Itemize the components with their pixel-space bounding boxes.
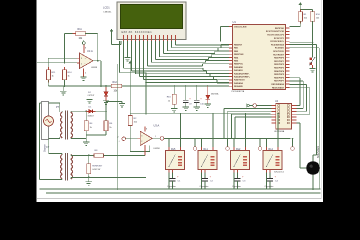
node — [312, 41, 314, 43]
wire — [168, 173, 170, 190]
wire — [62, 111, 86, 112]
svg-text:RD7/PSP7: RD7/PSP7 — [274, 81, 285, 83]
wire — [289, 48, 319, 189]
capacitor C4 — [267, 173, 277, 190]
resistor R12 — [111, 84, 122, 88]
MCU left pins — [229, 27, 233, 87]
resistor R2 — [128, 116, 132, 126]
label R2 — [134, 118, 138, 124]
svg-text:3: 3 — [141, 135, 142, 137]
power arrow — [110, 29, 121, 45]
label D1 — [88, 107, 94, 118]
label R1 — [304, 14, 308, 20]
MCU right pins — [286, 28, 290, 87]
wire — [289, 21, 300, 26]
wire — [169, 114, 181, 147]
pin — [129, 126, 131, 129]
IC U4 body — [276, 104, 292, 130]
pin — [299, 9, 301, 23]
left black bar — [0, 0, 37, 202]
ground — [309, 69, 315, 73]
svg-text:SOUNDER: SOUNDER — [317, 146, 320, 158]
wire — [49, 137, 60, 139]
label CT — [46, 146, 50, 149]
wire — [221, 27, 230, 42]
svg-text:RC2/CCP1: RC2/CCP1 — [274, 38, 285, 40]
resistor R11b — [47, 70, 51, 80]
wire bundle lower — [124, 41, 230, 83]
svg-text:RD2/PSP2: RD2/PSP2 — [274, 64, 285, 66]
wire — [40, 103, 49, 180]
svg-text:RC5/SDO: RC5/SDO — [275, 48, 285, 50]
svg-text:RB3/PGM: RB3/PGM — [234, 54, 244, 56]
node — [97, 60, 99, 62]
pin — [48, 67, 50, 83]
svg-text:RC3/SCK/SCL: RC3/SCK/SCL — [270, 41, 284, 43]
svg-text:RB0/INT: RB0/INT — [234, 44, 243, 46]
svg-text:8: 8 — [146, 129, 147, 131]
svg-text:R9/SHUNT: R9/SHUNT — [92, 165, 103, 167]
op-amp U3:A — [140, 131, 152, 145]
node — [145, 82, 147, 84]
MCU pin names — [234, 26, 285, 89]
label LCD1 — [103, 6, 112, 14]
ground — [86, 100, 92, 104]
node — [168, 113, 181, 140]
svg-text:E88 #8. 8333333E1: E88 #8. 8333333E1 — [122, 31, 153, 34]
wire — [296, 123, 306, 168]
MCU U1 body — [233, 25, 286, 90]
terminal — [291, 138, 295, 151]
wire — [106, 102, 122, 112]
relay RL1 — [198, 147, 217, 173]
ground — [83, 135, 89, 146]
svg-text:RC0/T1OSO/T1CKI: RC0/T1OSO/T1CKI — [266, 31, 285, 33]
svg-text:RD0/PSP0: RD0/PSP0 — [274, 58, 285, 60]
svg-text:1: 1 — [155, 136, 156, 138]
svg-text:LM358: LM358 — [154, 148, 161, 150]
svg-text:RD3/PSP3: RD3/PSP3 — [274, 67, 285, 69]
power pin — [145, 127, 147, 132]
capacitor C9 — [183, 85, 193, 110]
wire — [153, 136, 161, 138]
wire — [116, 64, 118, 189]
svg-text:RD4/PSP4: RD4/PSP4 — [274, 70, 285, 73]
wire — [266, 173, 268, 190]
wire — [120, 41, 147, 73]
wire bundle MCU-U4 — [289, 78, 310, 114]
wire — [71, 177, 146, 179]
node — [85, 110, 87, 112]
label Source — [44, 144, 47, 152]
label PT — [56, 106, 60, 109]
svg-text:RA4/T0CKI: RA4/T0CKI — [234, 79, 245, 82]
wire rail switches — [164, 138, 291, 140]
svg-text:RC4/SDI/SDA: RC4/SDI/SDA — [271, 43, 284, 46]
wire — [47, 58, 49, 69]
power pin — [144, 145, 146, 155]
ground — [60, 86, 66, 95]
svg-text:U1: U1 — [233, 20, 237, 24]
ground — [86, 182, 92, 186]
svg-text:1N4733A: 1N4733A — [211, 93, 219, 96]
label G2R-14 — [274, 171, 284, 173]
ground — [80, 77, 86, 81]
node — [64, 62, 66, 64]
AC source — [44, 116, 54, 126]
label D2 OUTPUT — [88, 92, 95, 97]
wire rail bottom — [40, 188, 321, 190]
label R12 — [113, 81, 119, 93]
relay RL4 — [263, 147, 282, 173]
wire bundle U4-relays — [224, 108, 272, 138]
ground — [119, 104, 125, 108]
node — [88, 155, 90, 157]
wire rail relays — [130, 113, 270, 115]
svg-text:RE2/CS/AN7: RE2/CS/AN7 — [272, 86, 285, 89]
capacitor C2 — [202, 173, 212, 190]
svg-text:RD6/PSP6: RD6/PSP6 — [274, 77, 285, 79]
terminal — [226, 138, 230, 151]
LCD pin labels — [122, 31, 153, 34]
svg-text:RC1/T1OSI/CCP2: RC1/T1OSI/CCP2 — [267, 34, 284, 36]
label R10 — [316, 14, 321, 20]
power flag — [247, 104, 253, 107]
power arrow — [299, 2, 302, 6]
wire — [129, 65, 131, 116]
svg-text:R12: R12 — [113, 81, 118, 84]
svg-text:Capacitor: Capacitor — [265, 185, 274, 188]
wire — [234, 114, 246, 147]
resistor R1 — [298, 12, 302, 22]
diode D2 zener — [104, 86, 108, 101]
wire — [201, 173, 203, 190]
wire — [267, 114, 279, 147]
source box — [42, 102, 49, 140]
terminal — [258, 138, 262, 151]
svg-text:RB6/PGC: RB6/PGC — [234, 64, 244, 66]
svg-text:U1:A: U1:A — [87, 49, 93, 53]
wire — [65, 33, 73, 35]
relay RL5 — [166, 147, 185, 173]
power pin 4 — [84, 69, 88, 78]
wire — [202, 114, 214, 147]
node — [105, 110, 107, 112]
pin — [77, 58, 80, 63]
svg-text:2: 2 — [141, 141, 142, 143]
svg-text:Capacitor: Capacitor — [200, 185, 209, 188]
svg-text:OSC1/CLKIN: OSC1/CLKIN — [234, 26, 247, 28]
capacitor C1 — [169, 173, 179, 190]
wire — [145, 73, 147, 114]
wire — [49, 103, 60, 112]
loudspeaker LS1 — [306, 161, 320, 175]
wire rail2 — [146, 82, 229, 84]
wire — [85, 33, 98, 35]
capacitor C10 — [194, 85, 205, 110]
capacitor C3 — [234, 173, 244, 190]
svg-text:PIC16F877A: PIC16F877A — [232, 90, 245, 93]
LCD body — [117, 2, 186, 40]
svg-text:RA3/AN3/VREF+: RA3/AN3/VREF+ — [234, 75, 251, 78]
wire — [64, 34, 66, 63]
ground — [124, 41, 130, 61]
wire — [71, 137, 86, 140]
label LM358 — [154, 148, 161, 150]
svg-text:PT: PT — [56, 106, 60, 109]
label C4 — [265, 180, 279, 188]
ground — [103, 101, 109, 105]
power pin 8 — [82, 40, 87, 53]
wire — [233, 173, 235, 190]
label U1 — [233, 20, 237, 24]
svg-text:RD5/PSP5: RD5/PSP5 — [274, 74, 285, 76]
right black bar — [323, 0, 360, 202]
svg-text:ULN2003A: ULN2003A — [274, 130, 285, 133]
wire rail bottom2 — [46, 192, 321, 194]
svg-text:RE1/WR/AN6: RE1/WR/AN6 — [271, 83, 284, 86]
svg-text:RC6/TX/CK: RC6/TX/CK — [273, 51, 284, 53]
node — [116, 188, 314, 190]
sheet border — [37, 0, 321, 199]
svg-text:Capacitor: Capacitor — [232, 185, 241, 188]
label U3:A — [154, 124, 160, 128]
svg-text:Capacitor: Capacitor — [167, 185, 176, 188]
resistor R9 shunt — [87, 155, 103, 173]
label C3 — [232, 180, 246, 188]
LCD screen — [121, 5, 183, 29]
svg-text:G2R-14 DC5: G2R-14 DC5 — [274, 171, 284, 173]
wire rail — [48, 85, 229, 87]
wire — [289, 41, 312, 43]
label R11b — [52, 72, 57, 78]
wire — [71, 154, 94, 157]
svg-text:RA0/AN0: RA0/AN0 — [234, 66, 244, 69]
wire — [88, 174, 90, 182]
terminal — [160, 137, 164, 141]
node — [201, 113, 214, 140]
svg-text:LM016L: LM016L — [104, 12, 113, 14]
node — [233, 113, 246, 140]
label SOUNDER — [317, 146, 320, 158]
resistor R10 — [310, 12, 314, 22]
svg-text:U3:A: U3:A — [154, 124, 160, 128]
terminal — [118, 136, 126, 142]
wire — [49, 140, 63, 155]
wire — [312, 175, 314, 189]
resistor R4 — [84, 111, 93, 131]
label R11 — [78, 28, 84, 40]
wire — [289, 45, 316, 162]
node — [266, 113, 279, 140]
wire — [312, 21, 314, 57]
svg-text:RA2/AN2/VREF-: RA2/AN2/VREF- — [234, 72, 250, 75]
wire — [256, 105, 271, 107]
wire — [48, 57, 79, 59]
wire — [37, 62, 80, 64]
wire — [100, 61, 102, 86]
svg-text:0.05R 5W: 0.05R 5W — [92, 169, 100, 171]
svg-text:RE0/AN5: RE0/AN5 — [234, 85, 244, 88]
svg-text:RD1/PSP1: RD1/PSP1 — [274, 61, 285, 63]
wire — [93, 60, 101, 62]
wire — [104, 154, 145, 156]
wire — [300, 6, 312, 12]
wire — [48, 80, 64, 86]
diode D1 — [86, 110, 95, 114]
label U1:A — [87, 49, 93, 53]
U4 left pins — [272, 106, 276, 123]
node — [88, 177, 90, 179]
node — [145, 85, 147, 114]
op-amp U1:A — [80, 53, 94, 69]
button reset — [309, 57, 315, 69]
resistor R14 — [63, 70, 67, 80]
resistor R6 — [104, 111, 113, 131]
terminal — [193, 138, 197, 151]
svg-text:1N4007: 1N4007 — [88, 116, 94, 118]
U4 inner marks — [278, 105, 290, 124]
svg-text:R11: R11 — [78, 28, 83, 31]
power arrow — [129, 61, 132, 65]
wire — [126, 138, 140, 140]
label ULN2003A — [274, 130, 285, 133]
label R14 — [68, 72, 73, 78]
wire bundle LCD-MCU — [148, 41, 230, 66]
relay RL2 — [231, 147, 250, 173]
wire — [130, 126, 150, 152]
LCD pins — [124, 35, 176, 41]
svg-text:OUTPUT: OUTPUT — [88, 95, 95, 97]
wire — [40, 178, 63, 181]
resistor R16 — [167, 85, 178, 112]
pin — [64, 67, 66, 83]
transformer PT — [61, 111, 73, 140]
resistor R11 feedback — [75, 31, 86, 35]
svg-text:RC7/RX/DT: RC7/RX/DT — [273, 54, 285, 56]
svg-text:LCD1: LCD1 — [103, 6, 110, 10]
U4 right pins — [292, 106, 297, 123]
svg-text:LM358: LM358 — [91, 67, 98, 69]
svg-text:CT: CT — [46, 146, 50, 149]
wire — [97, 34, 99, 61]
pin — [73, 33, 86, 35]
svg-text:RA5/AN4: RA5/AN4 — [234, 82, 244, 85]
label PIC16F877A — [232, 90, 245, 93]
node — [105, 85, 107, 87]
transformer CT — [61, 153, 73, 181]
terminal — [253, 104, 257, 108]
node — [64, 85, 102, 87]
label C2 — [200, 180, 214, 188]
svg-text:RB7/PGD: RB7/PGD — [275, 28, 285, 30]
label C1 — [167, 180, 181, 188]
resistor R8 — [94, 150, 104, 157]
label LM358 — [91, 67, 98, 69]
diode D3 zener — [205, 85, 219, 107]
label U4 — [275, 100, 279, 103]
wire — [95, 110, 106, 112]
wire — [86, 131, 106, 135]
svg-text:RA1/AN1: RA1/AN1 — [234, 69, 244, 72]
